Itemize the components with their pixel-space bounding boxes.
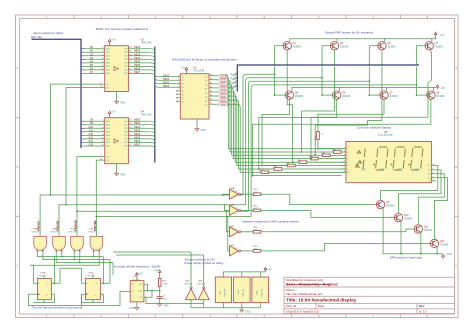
power +5V U1 xyxy=(108,39,116,46)
svg-text:SEGF: SEGF xyxy=(220,96,226,98)
resistor R21 vertical xyxy=(315,132,345,149)
wires inverter inputs xyxy=(113,252,204,304)
svg-text:B: B xyxy=(16,165,18,169)
svg-text:HEXDb: HEXDb xyxy=(230,78,238,80)
svg-text:+5V: +5V xyxy=(139,273,144,276)
wire Q4 collector drop xyxy=(311,50,432,159)
svg-text:File: Hex Display.kicad_sch: File: Hex Display.kicad_sch xyxy=(286,292,323,296)
svg-text:GAL16V8: GAL16V8 xyxy=(193,69,205,73)
svg-text:LTC-4727JR: LTC-4727JR xyxy=(378,133,393,137)
resistor R14 xyxy=(241,205,261,211)
wire R13 to Q9 base xyxy=(261,194,377,204)
svg-text:GND: GND xyxy=(245,311,251,314)
svg-text:74HC08: 74HC08 xyxy=(225,288,227,297)
svg-text:Size: A4: Size: A4 xyxy=(286,304,297,308)
svg-text:Buffer ICs used as tri-state m: Buffer ICs used as tri-state multiplexer… xyxy=(96,27,149,31)
svg-text:THR: THR xyxy=(138,291,143,293)
svg-text:+5V: +5V xyxy=(441,87,446,90)
svg-text:GND: GND xyxy=(129,307,135,310)
wire base riser 1 xyxy=(273,46,285,95)
no-connect stubs GAL xyxy=(177,91,181,102)
svg-text:HEX3: HEX3 xyxy=(163,85,170,88)
svg-text:Simple PNP drivers for 5V oper: Simple PNP drivers for 5V operation xyxy=(325,30,373,34)
svg-text:SEGP: SEGP xyxy=(220,104,226,106)
svg-text:Date:: Date: xyxy=(318,304,325,308)
note: All parts powered at +5V xyxy=(185,257,224,265)
display right pin numbers xyxy=(432,164,435,181)
svg-text:U8: U8 xyxy=(384,130,388,134)
svg-text:1k: 1k xyxy=(321,134,323,136)
capacitor C1 xyxy=(157,295,168,301)
wire base riser 3 xyxy=(368,46,380,95)
gate U5D labels xyxy=(87,229,96,234)
svg-text:D14: D14 xyxy=(89,140,94,143)
power +5V GAL xyxy=(181,67,188,74)
svg-text:Common cathode display: Common cathode display xyxy=(357,126,391,130)
svg-text:2N3904: 2N3904 xyxy=(440,243,449,246)
svg-text:74HC08: 74HC08 xyxy=(68,232,77,234)
IC U6G power unit xyxy=(252,277,269,303)
svg-text:c: c xyxy=(347,155,348,157)
gate U5B labels xyxy=(50,229,59,234)
junction dots U9 xyxy=(147,290,161,292)
inverter U6C xyxy=(230,227,241,237)
svg-text:74HC74: 74HC74 xyxy=(38,276,47,278)
inverter U6E xyxy=(186,252,197,304)
select line 4 xyxy=(96,217,251,251)
svg-text:2N3906: 2N3906 xyxy=(340,46,349,49)
svg-text:Title: 16 bit hexadecimal disp: Title: 16 bit hexadecimal display xyxy=(286,298,357,303)
svg-text:74HC08: 74HC08 xyxy=(87,232,96,234)
IC U3 GAL16V8 xyxy=(178,65,209,119)
junction dots gate routing xyxy=(61,194,229,263)
svg-text:SEGC: SEGC xyxy=(220,84,226,86)
svg-text:2G: 2G xyxy=(106,88,109,90)
wire +5V rail power units xyxy=(223,272,265,277)
power GND U1 xyxy=(115,92,126,105)
svg-text:Power supply omitted for clari: Power supply omitted for clarity xyxy=(185,261,224,265)
svg-text:74HC74: 74HC74 xyxy=(243,288,245,297)
pin numbers U2 enables xyxy=(100,155,103,161)
inverter U6D xyxy=(230,246,241,256)
svg-text:HEXDc: HEXDc xyxy=(230,82,237,84)
svg-text:2N3906: 2N3906 xyxy=(436,95,445,98)
svg-text:2N3904: 2N3904 xyxy=(386,205,395,208)
bus GAL outputs vertical xyxy=(237,65,419,92)
svg-text:NPN drivers for each digit: NPN drivers for each digit xyxy=(390,255,422,259)
wires gate inputs routing xyxy=(30,250,113,265)
gate U5D xyxy=(90,237,103,251)
svg-text:SEGB: SEGB xyxy=(220,80,226,82)
power +5V U2 xyxy=(108,111,116,118)
labels GAL input nets xyxy=(163,74,170,88)
wires U2 outputs to bus xyxy=(128,121,146,146)
pin numbers U2 left xyxy=(101,120,104,147)
wire Q6 collector drop xyxy=(259,99,337,169)
wires U2 inputs xyxy=(81,121,105,146)
junction dot clock xyxy=(81,305,83,307)
svg-text:GND: GND xyxy=(447,253,453,256)
IC U2 74HC244 xyxy=(105,109,152,163)
svg-text:2N3906: 2N3906 xyxy=(387,46,396,49)
svg-text:SEGE: SEGE xyxy=(220,92,226,94)
junction dots select lines xyxy=(50,73,418,205)
pin numbers GAL right xyxy=(210,74,213,104)
svg-text:DP1: DP1 xyxy=(361,168,366,171)
display DP labels xyxy=(361,168,420,171)
svg-text:1k: 1k xyxy=(328,153,330,155)
transistor Q11 xyxy=(414,225,433,233)
display digit 2 xyxy=(376,147,388,170)
svg-text:HEX1: HEX1 xyxy=(134,122,141,125)
wire R16 to Q12 base xyxy=(261,243,431,251)
wires U9 to R17 C1 xyxy=(144,284,160,297)
svg-text:GND: GND xyxy=(120,174,126,177)
svg-text:Simplified for reference only.: Simplified for reference only. xyxy=(286,278,324,282)
wires GAL fanout down xyxy=(226,76,240,173)
svg-text:+5V: +5V xyxy=(181,67,186,70)
resistor R27 staircase row5 xyxy=(298,160,345,164)
svg-text:d: d xyxy=(347,158,348,160)
inverter U6E labels xyxy=(184,280,193,285)
power GND C1 xyxy=(158,302,169,308)
gate U5C labels xyxy=(68,229,77,234)
wire GND rail power units xyxy=(191,303,260,308)
bus HEX vertical xyxy=(154,47,156,163)
wires GAL fanout joins xyxy=(228,149,341,173)
power GND NPN rail xyxy=(441,253,452,258)
gate input pin marks xyxy=(37,251,100,253)
pin numbers U1 enables xyxy=(100,83,103,89)
svg-text:GND: GND xyxy=(163,305,169,308)
display left pin names xyxy=(347,149,350,175)
wires U1 outputs to bus xyxy=(128,49,146,74)
inverter U6D labels xyxy=(229,245,238,250)
transistor Q5 xyxy=(285,91,304,99)
bus R[0..15] xyxy=(32,39,82,148)
svg-text:SEGD: SEGD xyxy=(220,88,226,90)
flip-flop U10B labels xyxy=(86,272,95,277)
title block xyxy=(284,277,455,313)
IC U1 74HC244 xyxy=(105,37,152,91)
resistor R17 xyxy=(158,275,167,296)
svg-text:1k: 1k xyxy=(339,150,341,152)
svg-text:74HC244: 74HC244 xyxy=(141,41,153,45)
select line 2 xyxy=(59,205,246,236)
svg-text:2N3906: 2N3906 xyxy=(389,95,398,98)
display digit 1 xyxy=(356,148,366,168)
svg-text:74HC14: 74HC14 xyxy=(261,288,263,297)
svg-text:U10C: U10C xyxy=(238,289,240,295)
power +5V row1 xyxy=(434,32,445,37)
power +5V U9 xyxy=(136,272,144,280)
power GND U9 xyxy=(129,302,139,310)
wires U1 inputs xyxy=(81,49,105,74)
svg-text:U5E: U5E xyxy=(220,290,222,295)
wire base riser 2 xyxy=(321,46,333,95)
svg-text:R[0..15]: R[0..15] xyxy=(31,35,42,39)
wires display digits to NPN xyxy=(381,166,448,240)
svg-text:HEX1: HEX1 xyxy=(134,50,141,53)
display left pin numbers xyxy=(344,147,346,173)
wires U10B pins xyxy=(54,257,113,304)
wire R15 to Q11 base xyxy=(261,229,414,232)
bus entries U2 outputs xyxy=(146,121,155,149)
svg-text:SEGA: SEGA xyxy=(220,75,226,78)
labels U1 input nets xyxy=(90,46,94,74)
svg-text:HEX7: HEX7 xyxy=(134,144,141,147)
wires U2 enables xyxy=(77,157,105,217)
transistor Q10 xyxy=(394,213,413,221)
svg-text:HEX6: HEX6 xyxy=(134,140,141,143)
svg-text:g: g xyxy=(347,169,348,171)
wire R14 to Q10 base xyxy=(261,210,394,217)
wires GAL outputs xyxy=(209,76,218,104)
junction dots staircase xyxy=(252,148,319,177)
svg-text:DP4: DP4 xyxy=(415,168,420,171)
svg-text:1k: 1k xyxy=(280,167,282,169)
inverter U6A labels xyxy=(229,187,238,193)
svg-text:2N3904: 2N3904 xyxy=(424,229,433,232)
bus entries GAL outputs xyxy=(233,73,237,88)
select line 3 xyxy=(77,211,248,236)
svg-text:2N3906: 2N3906 xyxy=(293,46,302,49)
IC U5E power unit xyxy=(215,277,231,303)
wire Q2 collector drop xyxy=(302,50,336,152)
svg-text:2N3906: 2N3906 xyxy=(295,95,304,98)
resistor R15 xyxy=(241,227,261,233)
resistor R16 xyxy=(241,246,261,252)
gate U5A labels xyxy=(31,228,40,234)
svg-text:Two bit Johnson (twisted ring): Two bit Johnson (twisted ring) counter xyxy=(32,305,83,309)
svg-text:SEGG: SEGG xyxy=(220,100,226,102)
svg-text:Rev:: Rev: xyxy=(419,304,425,308)
junction dots FF xyxy=(54,282,105,284)
display U8 reference xyxy=(378,130,393,137)
wire base riser 4 xyxy=(415,46,427,95)
transistor Q6 xyxy=(333,91,352,99)
gate U5B xyxy=(53,237,66,251)
junction dots base risers xyxy=(274,94,418,96)
select line 1 xyxy=(40,194,243,236)
svg-text:B: B xyxy=(455,165,457,169)
svg-text:74HC244: 74HC244 xyxy=(141,113,153,117)
svg-text:+5V: +5V xyxy=(111,39,116,42)
transistor Q1 xyxy=(283,42,302,50)
inverter U6B labels xyxy=(229,204,238,209)
power +5V R17 xyxy=(154,269,161,275)
wire Q8 collector drop xyxy=(253,99,431,175)
resistor R25 staircase row7 xyxy=(262,167,345,171)
global labels SEG A-DP xyxy=(218,74,227,106)
svg-text:2N3906: 2N3906 xyxy=(435,46,444,49)
IC U10C power unit xyxy=(233,277,250,303)
svg-text:D15: D15 xyxy=(89,144,94,147)
gate U5A xyxy=(34,237,47,251)
wire Q7 collector drop xyxy=(318,99,384,131)
svg-text:D11: D11 xyxy=(89,129,94,132)
svg-text:+5V: +5V xyxy=(268,269,273,272)
gate U5C xyxy=(71,237,84,251)
transistor Q7 xyxy=(380,91,399,99)
resistor R24 staircase row8 xyxy=(258,170,345,174)
wire +5V rail row2 xyxy=(292,87,436,91)
svg-text:1G: 1G xyxy=(106,157,109,159)
svg-text:Id: 1/1: Id: 1/1 xyxy=(419,309,427,313)
svg-text:74HC08: 74HC08 xyxy=(50,232,59,234)
svg-text:DP2: DP2 xyxy=(380,168,385,171)
svg-text:1k: 1k xyxy=(305,160,307,162)
svg-text:74HC14: 74HC14 xyxy=(184,284,193,286)
wire Q5 collector drop xyxy=(262,99,289,165)
svg-text:U5A: U5A xyxy=(33,228,38,231)
svg-text:U10A: U10A xyxy=(40,271,46,274)
flip-flop U10A labels xyxy=(38,271,47,277)
wires GAL inputs from bus xyxy=(155,74,159,88)
labels U2 input nets xyxy=(89,119,94,147)
display decimal points xyxy=(356,164,410,166)
power +5V row2 xyxy=(436,85,445,90)
svg-text:U5D: U5D xyxy=(89,229,94,231)
svg-text:GND: GND xyxy=(201,129,207,132)
transistor Q3 xyxy=(378,42,397,50)
net labels at digit bus xyxy=(230,74,238,88)
wires select distribution xyxy=(243,74,417,216)
svg-text:+5V: +5V xyxy=(154,269,159,272)
display digit 4 xyxy=(411,147,423,170)
transistor Q4 xyxy=(425,42,444,50)
svg-text:1G: 1G xyxy=(106,84,109,86)
svg-text:1k: 1k xyxy=(316,157,318,159)
power GND rail xyxy=(240,308,251,314)
inverter U6B xyxy=(230,205,241,215)
display right pin stubs xyxy=(431,166,436,181)
svg-text:U6E: U6E xyxy=(185,280,190,282)
svg-text:GAL16V8 four bit binary to hex: GAL16V8 four bit binary to hexadecimal d… xyxy=(172,57,237,61)
svg-text:74HC74: 74HC74 xyxy=(86,276,95,278)
svg-text:U10B: U10B xyxy=(88,272,94,274)
svg-text:A: A xyxy=(16,66,18,70)
resistor R28 staircase row4 xyxy=(309,156,345,160)
transistor Q8 xyxy=(427,91,446,99)
display U8 body xyxy=(346,142,432,183)
svg-text:74HC14: 74HC14 xyxy=(197,284,206,286)
wire clock net xyxy=(28,292,130,306)
resistor R13 xyxy=(241,189,261,195)
transistor Q9 xyxy=(376,200,395,208)
wires NPN emitters to ground rail xyxy=(383,208,443,254)
timer U9 labels xyxy=(132,276,141,281)
wire Q3 collector drop xyxy=(315,50,383,155)
svg-text:2N3906: 2N3906 xyxy=(342,95,351,98)
power GND U2 xyxy=(115,164,126,177)
svg-text:1k: 1k xyxy=(267,170,269,172)
pin numbers U2 right + HEX labels xyxy=(129,120,132,147)
resistor R29 staircase row3 xyxy=(321,153,345,157)
svg-text:A: A xyxy=(455,66,457,70)
resistor R26 staircase row6 xyxy=(266,163,345,167)
bus entries U1 outputs xyxy=(146,49,155,77)
svg-text:DP3: DP3 xyxy=(397,168,402,171)
svg-text:HEX3: HEX3 xyxy=(134,129,141,132)
pin numbers U1 right + HEX labels xyxy=(129,47,132,74)
inverter U6C labels xyxy=(229,226,238,231)
svg-text:+5V: +5V xyxy=(440,34,445,37)
flip-flop U10A xyxy=(37,278,51,299)
display left pin stubs xyxy=(342,149,346,173)
timer U9 TLC555 xyxy=(130,281,144,302)
transistor Q12 xyxy=(430,239,449,247)
svg-text:HEX3: HEX3 xyxy=(134,57,141,60)
svg-text:KiCad E.D.A. kicad (6.0.5): KiCad E.D.A. kicad (6.0.5) xyxy=(286,309,319,313)
svg-text:100n: 100n xyxy=(163,299,169,301)
svg-text:2N3904: 2N3904 xyxy=(404,218,413,221)
wires U1 enables xyxy=(51,84,105,205)
svg-text:1k: 1k xyxy=(293,164,295,166)
transistor Q2 xyxy=(330,42,349,50)
svg-text:HEX7: HEX7 xyxy=(134,71,141,74)
svg-text:U6F: U6F xyxy=(198,280,203,282)
svg-text:2G: 2G xyxy=(106,160,109,162)
svg-text:GND: GND xyxy=(120,102,126,105)
pin numbers U1 left xyxy=(101,47,104,74)
power GND GAL xyxy=(195,119,206,132)
inverter U6F labels xyxy=(197,280,206,285)
rotated net labels above gates xyxy=(37,220,97,231)
svg-text:1.0M: 1.0M xyxy=(163,284,168,286)
svg-text:HEXDa: HEXDa xyxy=(230,74,238,76)
svg-text:U5B: U5B xyxy=(52,229,57,231)
wire +5V rail row1 xyxy=(290,37,436,42)
junction dots emitter rail xyxy=(400,253,438,255)
display right pin names xyxy=(428,165,431,182)
display digit 3 xyxy=(393,147,405,170)
power +5V rail xyxy=(264,267,272,272)
inverter U6F xyxy=(198,255,209,304)
svg-text:+5V: +5V xyxy=(111,111,116,114)
resistor R30 staircase row2 xyxy=(332,150,345,154)
svg-text:U6G: U6G xyxy=(256,290,258,295)
staircase resistor values xyxy=(267,134,341,173)
svg-text:U5C: U5C xyxy=(70,229,75,231)
wires U10A pins xyxy=(30,257,54,304)
inverter U6A xyxy=(230,189,241,199)
flip-flop U10B xyxy=(86,278,101,299)
svg-text:74HC08: 74HC08 xyxy=(31,232,40,234)
wire Q1 collector drop xyxy=(286,50,298,162)
svg-text:HEX6: HEX6 xyxy=(134,67,141,70)
svg-text:Inverters required for NPN cat: Inverters required for NPN cathode drive… xyxy=(242,220,299,224)
